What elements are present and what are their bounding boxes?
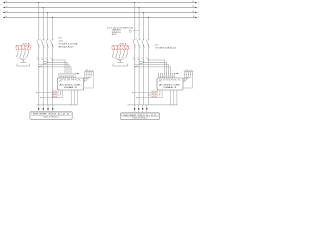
- svg-text:1: 1: [0, 14, 1, 16]
- plug pin 3: [23, 50, 25, 61]
- plug connector -X30 (red): [112, 43, 129, 51]
- svg-text:L1: L1: [192, 1, 194, 3]
- svg-text:4: 4: [44, 47, 45, 49]
- bus L2 sheet ref: [198, 7, 199, 9]
- breaker -Q2 pole 4: [145, 38, 150, 49]
- contactor -K2 pole 3: [142, 57, 144, 60]
- wire b1 breaker to cable: [134, 46, 136, 105]
- drive -T1 input pins: [59, 73, 76, 78]
- svg-text:2: 2: [198, 17, 199, 19]
- svg-text:1 3 5 7 N: 1 3 5 7 N: [114, 48, 127, 50]
- bus L3 left arrow: [3, 12, 5, 14]
- wire drive output 3: [176, 90, 178, 105]
- wire branch b3 to drive input: [143, 62, 166, 74]
- breaker -Q1 label: [58, 38, 78, 49]
- bus L2 right label: [192, 6, 194, 8]
- bus L2 left label: [6, 6, 8, 8]
- drive -T2 input pins: [158, 73, 175, 78]
- motor lead 1: [134, 105, 136, 112]
- wire control 1 (red label): [36, 90, 58, 93]
- svg-text:2: 2: [198, 7, 199, 9]
- bus L2 left sheet ref: [0, 9, 1, 11]
- bus L3 right arrow: [195, 12, 197, 14]
- wire branch a4 to drive input: [52, 60, 65, 74]
- motor lead 2: [138, 105, 140, 112]
- wire hop loop 1: [43, 61, 47, 63]
- svg-text:AC23: AC23: [112, 33, 117, 36]
- motor lead 3: [47, 105, 49, 112]
- svg-text:08A8-4: 08A8-4: [164, 86, 179, 89]
- plug pin 1: [112, 50, 120, 61]
- wire control 3 (red label): [136, 90, 162, 98]
- breaker -Q1 pole 4: [49, 38, 54, 49]
- bus L3 sheet ref: [198, 12, 199, 14]
- wire drive output 1: [70, 90, 72, 105]
- breaker -Q2 label: [107, 28, 133, 36]
- wire branch b1 to drive input: [134, 66, 170, 73]
- wire phase L1 drop b1: [134, 2, 135, 40]
- svg-text:5: 5: [140, 38, 141, 40]
- vfd drive -T2: [157, 78, 183, 90]
- svg-text:U1 V1 W1 PE R+ R-: U1 V1 W1 PE R+ R-: [160, 80, 182, 82]
- wire a3 breaker to cable: [47, 46, 49, 105]
- svg-text:1: 1: [0, 19, 1, 21]
- svg-text:2: 2: [135, 47, 136, 49]
- bus L1 left sheet ref: [0, 4, 1, 6]
- svg-text:3: 3: [40, 38, 41, 40]
- bus L2 left arrow: [3, 7, 5, 9]
- plug pin 2: [20, 50, 24, 61]
- bus N left arrow: [3, 17, 5, 19]
- svg-text:7: 7: [49, 38, 50, 40]
- contactor -K1 pole 4: [51, 57, 53, 60]
- plug connector -X20 (red): [16, 43, 31, 51]
- auxiliary contact circle: [129, 30, 131, 32]
- bus L3 right label: [192, 11, 194, 13]
- wire a2 breaker to cable: [42, 46, 44, 105]
- svg-text:ACS355-03E-: ACS355-03E-: [159, 83, 182, 86]
- svg-text:OT16F3 16A 3LD2: OT16F3 16A 3LD2: [155, 47, 176, 50]
- connector -X2: [183, 70, 193, 88]
- svg-text:L2: L2: [6, 6, 8, 8]
- svg-text:MCMK 3X2.5+2.5: MCMK 3X2.5+2.5: [124, 115, 159, 117]
- wire phase L2 drop b2: [139, 7, 140, 40]
- svg-text:3RV2011 AC23: 3RV2011 AC23: [58, 45, 73, 48]
- motor -M2 terminal box: [121, 113, 160, 120]
- contactor -K1 pole 3: [46, 57, 48, 60]
- bus N sheet ref: [198, 17, 199, 19]
- wire control 3 (red label): [40, 90, 63, 98]
- vfd drive -T1: [58, 78, 84, 90]
- bus L2 right arrow: [195, 7, 197, 9]
- bus N right arrow: [195, 17, 197, 19]
- motor lead 4: [52, 105, 54, 112]
- svg-text:2: 2: [198, 12, 199, 14]
- motor cable -W2: [128, 104, 178, 106]
- wire branch a3 to drive input: [47, 62, 67, 74]
- wire branch a1 to drive input: [38, 66, 71, 73]
- svg-text:1: 1: [0, 9, 1, 11]
- wire branch a2 to drive input: [43, 64, 69, 73]
- wire b2 breaker to cable: [138, 46, 140, 105]
- wire phase L1 drop a1: [38, 2, 39, 40]
- svg-text:13.7: 13.7: [58, 38, 62, 40]
- svg-text:M10{idx+1} PUMP {idx+1}: M10{idx+1} PUMP {idx+1}: [133, 118, 148, 120]
- contactor -K2 pole 2: [137, 57, 139, 60]
- bus N left label: [6, 16, 8, 18]
- wire drive output 2: [173, 90, 175, 105]
- breaker -Q1 pole 2: [40, 38, 45, 49]
- wire to remote (arrow): [75, 73, 79, 74]
- motor -M1 terminal box: [30, 112, 72, 120]
- breaker -Q1 pole 1: [36, 38, 41, 49]
- svg-text:3: 3: [136, 38, 137, 40]
- contactor -K1 pole 1: [37, 57, 39, 60]
- wire drive output 2: [73, 90, 75, 105]
- breaker -Q2 pole 1: [132, 38, 137, 49]
- svg-text:6: 6: [144, 47, 145, 49]
- wire b4 breaker to cable: [147, 46, 149, 105]
- svg-text:13.7: 13.7: [155, 45, 159, 47]
- bus L1 sheet ref: [198, 2, 199, 4]
- svg-text:MC103: MC103: [52, 96, 57, 98]
- plug pin 4: [23, 50, 28, 61]
- wire phase L3 drop b3: [143, 12, 144, 40]
- svg-text:08A8-4: 08A8-4: [64, 86, 79, 89]
- motor lead 4: [146, 105, 148, 112]
- svg-text:2: 2: [39, 47, 40, 49]
- bus L1 left label: [6, 1, 8, 3]
- motor lead 2: [42, 105, 44, 112]
- svg-text:L1: L1: [6, 1, 8, 3]
- plug cable funnel: [17, 61, 30, 66]
- svg-text:M10{idx+1} PUMP {idx+1}: M10{idx+1} PUMP {idx+1}: [44, 117, 59, 119]
- bus L3 left sheet ref: [0, 14, 1, 16]
- svg-text:L2: L2: [192, 6, 194, 8]
- svg-text:U1 V1 W1 PE R+ R-: U1 V1 W1 PE R+ R-: [60, 80, 82, 82]
- motor cable -W1: [37, 104, 78, 106]
- svg-text:OT16F3 3+N 16A: OT16F3 3+N 16A: [58, 43, 78, 46]
- wire phase L3 drop a3: [47, 12, 48, 40]
- wire branch b4 to drive input: [148, 60, 165, 74]
- svg-text:L3: L3: [192, 11, 194, 13]
- bus L1: [5, 2, 196, 4]
- wire control 2 (red label): [148, 90, 160, 96]
- wire control 1 (red label): [132, 90, 158, 93]
- bus N: [5, 17, 196, 19]
- plug pin 5: [120, 50, 128, 61]
- bus N right label: [193, 16, 195, 18]
- wire b3 breaker to cable: [143, 46, 145, 105]
- bus L3: [5, 12, 196, 14]
- svg-text:4: 4: [140, 47, 141, 49]
- svg-text:MC101: MC101: [152, 91, 157, 93]
- svg-text:8: 8: [149, 47, 150, 49]
- contactor -K1 pole 2: [41, 57, 43, 60]
- wire a4 breaker to cable: [52, 46, 54, 105]
- svg-text:ACS355-03E-: ACS355-03E-: [60, 83, 83, 86]
- svg-text:6: 6: [48, 47, 49, 49]
- svg-text:L3: L3: [6, 11, 8, 13]
- wire phase L2 drop a2: [43, 7, 44, 40]
- motor lead 3: [142, 105, 144, 112]
- svg-text:-Q1.2: -Q1.2: [58, 41, 63, 43]
- bus L1 left arrow: [3, 2, 5, 4]
- motor lead 1: [38, 105, 40, 112]
- bus L2: [5, 7, 196, 9]
- plug cable funnel: [113, 61, 128, 66]
- svg-text:MC102: MC102: [152, 94, 157, 96]
- svg-text:5: 5: [44, 38, 45, 40]
- contactor -K2 pole 4: [147, 57, 149, 60]
- svg-text:1: 1: [132, 38, 133, 40]
- wire hop loop 2: [38, 64, 42, 66]
- svg-text:MC103: MC103: [152, 96, 157, 98]
- breaker -Q1 pole 3: [44, 38, 49, 49]
- wire drive output 3: [76, 90, 78, 105]
- wire control 2 (red label): [52, 90, 60, 96]
- bus L3 left label: [6, 11, 8, 13]
- wire branch b2 to drive input: [139, 64, 169, 73]
- wire phase N drop a4: [52, 17, 53, 40]
- wire to remote (arrow): [175, 73, 179, 74]
- contactor -K2 pole 1: [133, 57, 135, 60]
- wire a1 breaker to cable: [38, 46, 40, 105]
- plug pin 2: [116, 50, 121, 61]
- breaker -Q2 pole 3: [140, 38, 145, 49]
- plug pin 4: [120, 50, 124, 61]
- svg-text:1 3 5 7: 1 3 5 7: [18, 48, 29, 50]
- wire phase N drop b4: [148, 17, 149, 40]
- connector -X1: [84, 70, 94, 88]
- wire hop loop 2: [134, 64, 138, 66]
- plug pin 1: [16, 50, 23, 61]
- bus L1 right label: [192, 1, 194, 3]
- wire drive output 1: [170, 90, 172, 105]
- svg-text:1: 1: [0, 4, 1, 6]
- breaker -Q2 leader line: [133, 29, 139, 31]
- switch -Q2 N-pole label: [155, 45, 176, 50]
- svg-text:MCMK 3X2.5+2.5: MCMK 3X2.5+2.5: [33, 114, 71, 116]
- bus L1 right arrow: [195, 2, 197, 4]
- breaker -Q2 pole 2: [136, 38, 141, 49]
- wire hop loop 1: [139, 61, 143, 63]
- svg-text:MC101: MC101: [52, 91, 57, 93]
- bus N left sheet ref: [0, 19, 1, 21]
- svg-text:MC102: MC102: [52, 94, 57, 96]
- svg-text:7: 7: [145, 38, 146, 40]
- svg-text:8: 8: [53, 47, 54, 49]
- svg-text:1: 1: [36, 38, 37, 40]
- plug pin 3: [119, 50, 121, 61]
- svg-text:2: 2: [198, 2, 199, 4]
